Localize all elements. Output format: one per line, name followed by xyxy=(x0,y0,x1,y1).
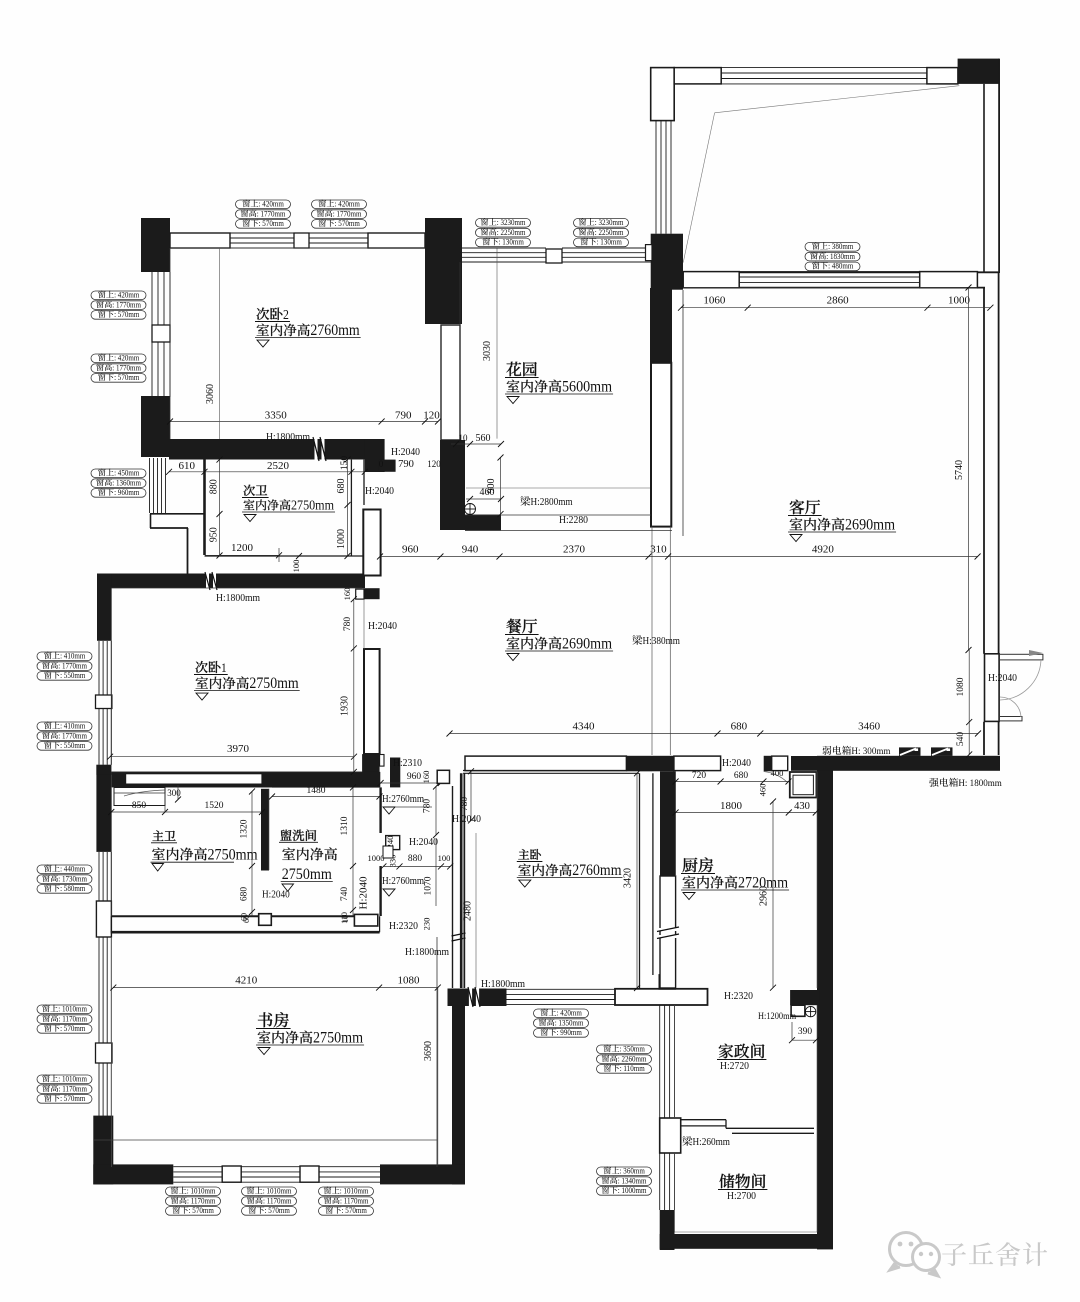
svg-text:2750mm: 2750mm xyxy=(282,865,332,883)
winboxes study bottom (three groups) xyxy=(166,1187,221,1196)
wall: masterbath south band outlined xyxy=(111,915,258,917)
svg-text:2690mm: 2690mm xyxy=(845,516,895,534)
dim 300-dim small square symbol xyxy=(383,846,393,858)
svg-text:: 2250mm: : 2250mm xyxy=(595,228,624,237)
svg-text:H: 300mm: H: 300mm xyxy=(851,746,890,757)
wall: band segment + fridge box right of kitchen door xyxy=(772,756,788,771)
svg-text:160: 160 xyxy=(421,771,431,784)
svg-text:: 1350mm: : 1350mm xyxy=(555,1018,584,1027)
dim 3690 study vertical xyxy=(437,988,439,1165)
watermark text 子丘舍计 xyxy=(942,1243,966,1266)
wall: second bath south line xyxy=(205,555,365,557)
svg-text:430: 430 xyxy=(794,801,810,812)
wall: laundry north band xyxy=(262,772,380,788)
window: garden top wall xyxy=(462,247,546,249)
room outline masterbath/laundry xyxy=(110,787,112,916)
svg-text:790: 790 xyxy=(395,410,412,422)
svg-text:1070: 1070 xyxy=(424,876,434,895)
svg-text:: 1010mm: : 1010mm xyxy=(187,1187,216,1196)
svg-text:: 410mm: : 410mm xyxy=(60,652,86,661)
wall: study left bottom block xyxy=(96,1116,112,1168)
svg-text:: 570mm: : 570mm xyxy=(335,219,361,228)
svg-text:1: 1 xyxy=(221,660,227,675)
dim 2960 kitchen vertical xyxy=(772,802,774,988)
svg-text:1060: 1060 xyxy=(703,295,726,307)
svg-text:10: 10 xyxy=(459,433,469,443)
dim second bath top 610/2520/150 xyxy=(169,471,365,473)
window: left wall 450-window below bedroom2 xyxy=(149,458,151,513)
svg-text:H:1800mm: H:1800mm xyxy=(266,431,310,443)
door: entry bottom leaf with arc xyxy=(1000,717,1023,721)
svg-text:2370: 2370 xyxy=(563,544,586,556)
dim 5740 living east xyxy=(968,288,970,651)
dim 4210/1080 study xyxy=(113,987,438,989)
svg-text:H:2320: H:2320 xyxy=(724,990,753,1002)
svg-text:: 1170mm: : 1170mm xyxy=(59,1014,88,1023)
window: living room north window band xyxy=(683,272,739,288)
svg-text:: 2250mm: : 2250mm xyxy=(497,228,526,237)
beam label storage xyxy=(682,1136,692,1146)
svg-text:3460: 3460 xyxy=(858,721,881,733)
svg-text:390: 390 xyxy=(798,1027,812,1037)
svg-text:2760mm: 2760mm xyxy=(310,322,360,339)
window: utility west wall xyxy=(659,1005,661,1118)
svg-text:: 420mm: : 420mm xyxy=(114,291,140,300)
svg-text:: 1170mm: : 1170mm xyxy=(340,1196,369,1205)
room label laundry xyxy=(280,830,291,841)
wall: bedroom1 bottom band xyxy=(111,772,380,788)
winboxes study left (two groups) xyxy=(37,1005,92,1014)
wall: storage top pillar xyxy=(660,1118,681,1153)
wall: corridor east wall xyxy=(817,770,833,1249)
svg-text:H:380mm: H:380mm xyxy=(643,636,681,647)
svg-text:: 1010mm: : 1010mm xyxy=(263,1187,292,1196)
svg-text:680: 680 xyxy=(336,479,347,494)
wall: main south band of living room xyxy=(791,756,819,771)
svg-text:H:1200mm: H:1200mm xyxy=(758,1012,797,1022)
room label master bath xyxy=(152,830,163,841)
svg-text:H:2040: H:2040 xyxy=(988,672,1017,684)
svg-text:: 360mm: : 360mm xyxy=(620,1167,646,1176)
svg-text:H: 1800mm: H: 1800mm xyxy=(958,778,1002,789)
svg-text:880: 880 xyxy=(408,854,422,864)
dim 1930 bedroom1 vertical xyxy=(353,648,355,772)
svg-text:2480: 2480 xyxy=(463,901,474,921)
wall: step lines left edge xyxy=(150,513,205,515)
svg-text:H:1800mm: H:1800mm xyxy=(481,978,525,990)
svg-text:: 990mm: : 990mm xyxy=(557,1028,583,1037)
room label utility xyxy=(719,1044,733,1059)
room outline garden interior xyxy=(459,262,461,440)
wall: laundry east wall xyxy=(379,787,381,833)
svg-text:680: 680 xyxy=(734,771,748,781)
label 弱电箱 xyxy=(823,746,832,755)
winboxes above bedroom2 (two groups) xyxy=(236,200,291,209)
svg-text:960: 960 xyxy=(402,544,419,556)
svg-text:610: 610 xyxy=(179,460,196,472)
watermark wechat logo xyxy=(890,1233,940,1277)
svg-text:: 450mm: : 450mm xyxy=(114,469,140,478)
wall: small pillar at kitchen door xyxy=(764,756,772,772)
masterbath sink counter xyxy=(114,788,165,806)
dim 900 vertical garden xyxy=(500,458,502,515)
beam lines dining/living xyxy=(651,527,653,755)
wall: bedroom1 top band xyxy=(97,574,365,589)
svg-text:110: 110 xyxy=(340,912,349,924)
room outline study xyxy=(110,937,112,1167)
svg-text:1520: 1520 xyxy=(205,801,224,811)
wall: study south band xyxy=(93,1116,113,1185)
winboxes garden top (two groups) xyxy=(476,219,531,228)
svg-text:2760mm: 2760mm xyxy=(572,862,622,879)
beam label 2800 garden xyxy=(520,496,530,506)
svg-text:H:260mm: H:260mm xyxy=(693,1137,731,1148)
svg-text:3420: 3420 xyxy=(623,868,634,888)
svg-text:: 3230mm: : 3230mm xyxy=(497,218,526,227)
room outline kitchen xyxy=(675,771,677,876)
room label dining xyxy=(506,619,521,634)
svg-text:540: 540 xyxy=(956,732,966,746)
room label study xyxy=(258,1012,273,1027)
svg-text:1080: 1080 xyxy=(956,677,966,696)
svg-text:H:2760mm: H:2760mm xyxy=(382,876,424,887)
wall: bedroom2 bottom band xyxy=(169,439,382,460)
break mark on bedroom2 bottom band xyxy=(316,436,323,462)
wall: bedroom2/garden top-right block xyxy=(425,218,462,324)
dim 4340/680/3460 dining south xyxy=(450,733,979,735)
svg-text:950: 950 xyxy=(209,527,220,542)
winbox living north 380 xyxy=(805,243,860,252)
svg-text:: 380mm: : 380mm xyxy=(828,242,854,251)
svg-text:460: 460 xyxy=(758,784,768,797)
svg-text:H:2040: H:2040 xyxy=(365,485,394,497)
svg-text:H:2040: H:2040 xyxy=(409,836,438,848)
svg-text:: 480mm: : 480mm xyxy=(828,262,854,271)
svg-text:960: 960 xyxy=(407,772,421,782)
dim 3420 kitchen vertical xyxy=(636,773,638,988)
svg-text:: 420mm: : 420mm xyxy=(557,1009,583,1018)
wall: bedroom1 left lower column top xyxy=(96,765,111,775)
wall: terrace west pillar xyxy=(651,68,675,121)
wall: masterbath/laundry divider xyxy=(261,789,269,871)
svg-text:5740: 5740 xyxy=(954,460,965,480)
room label bedroom2 xyxy=(257,308,270,321)
svg-text:790: 790 xyxy=(398,459,414,470)
svg-text:H:2720: H:2720 xyxy=(720,1060,749,1072)
wall: living room below door xyxy=(983,722,985,755)
dim 3030 garden vertical xyxy=(496,249,498,439)
winbox left 450 group xyxy=(91,469,146,478)
wall: second-bath west wall xyxy=(203,457,206,555)
svg-text:3970: 3970 xyxy=(227,743,250,755)
label 强电箱 xyxy=(929,778,938,787)
svg-text:120: 120 xyxy=(427,459,441,469)
svg-text:: 110mm: : 110mm xyxy=(620,1064,646,1073)
wall: storage north wall lines xyxy=(681,1119,726,1121)
svg-text:150: 150 xyxy=(340,456,350,470)
svg-text:: 550mm: : 550mm xyxy=(60,741,86,750)
svg-text:3350: 3350 xyxy=(265,410,288,422)
svg-text:720: 720 xyxy=(692,771,706,781)
electric device notch in utility room xyxy=(791,1005,805,1016)
appliance box right of kitchen door xyxy=(790,772,817,798)
svg-text:680: 680 xyxy=(240,887,250,901)
wall: dining south band west part xyxy=(465,756,626,771)
svg-text:: 130mm: : 130mm xyxy=(499,238,525,247)
svg-text:740: 740 xyxy=(340,887,350,901)
wall: garden west step piece xyxy=(465,515,501,531)
wall: bedroom1 east outlined column xyxy=(364,649,380,754)
room outline bedroom2 xyxy=(170,247,425,249)
svg-text:: 1770mm: : 1770mm xyxy=(257,209,286,218)
wall: master bedroom east wall outline xyxy=(639,773,641,989)
svg-text:: 1360mm: : 1360mm xyxy=(112,478,141,487)
svg-text:H:2040: H:2040 xyxy=(368,620,397,632)
svg-text:3030: 3030 xyxy=(482,341,493,361)
dim vertical 880/950 in second bath xyxy=(219,460,221,556)
svg-text:4210: 4210 xyxy=(235,975,258,987)
svg-text:560: 560 xyxy=(476,433,491,444)
svg-text:2520: 2520 xyxy=(267,460,290,472)
wall: study/master-bedroom south block xyxy=(448,989,507,1007)
room label second bath xyxy=(243,485,254,496)
svg-text:H:1800mm: H:1800mm xyxy=(216,592,260,604)
door: main entry frame xyxy=(985,654,1000,722)
svg-text:: 570mm: : 570mm xyxy=(60,1024,86,1033)
svg-text:: 580mm: : 580mm xyxy=(60,884,86,893)
svg-text:: 420mm: : 420mm xyxy=(259,200,285,209)
svg-text:1080: 1080 xyxy=(397,975,420,987)
wall: masterbath north shelf xyxy=(126,774,262,784)
svg-text:1320: 1320 xyxy=(240,819,250,838)
svg-text:: 130mm: : 130mm xyxy=(597,238,623,247)
svg-text:310: 310 xyxy=(650,544,667,556)
window: study left wall xyxy=(98,937,100,1043)
svg-text:2750mm: 2750mm xyxy=(249,675,299,692)
svg-text:1480: 1480 xyxy=(307,786,326,796)
svg-text:H:2040: H:2040 xyxy=(391,446,420,458)
wall: storage west bottom block xyxy=(660,1210,675,1250)
room label living xyxy=(790,500,805,515)
svg-text:: 1170mm: : 1170mm xyxy=(263,1196,292,1205)
wall: piece right of bedroom1 corner xyxy=(390,758,400,788)
svg-text:1000: 1000 xyxy=(368,853,385,863)
svg-text:780: 780 xyxy=(343,617,353,631)
window: bedroom2 top wall xyxy=(170,233,230,248)
wall: dining west column outlined xyxy=(363,510,380,576)
wall: master bedroom west wall xyxy=(460,773,463,988)
wall: bedroom1 east chunk with notch xyxy=(362,588,380,599)
wall: T-pillar south of kitchen xyxy=(615,989,708,1005)
wall: bedroom2 top-left corner block xyxy=(141,218,170,272)
svg-text:3060: 3060 xyxy=(205,384,216,404)
svg-text:: 570mm: : 570mm xyxy=(259,219,285,228)
wall: study east wall outline xyxy=(452,786,454,988)
dim 3060 bedroom2 vertical xyxy=(219,248,221,439)
wall: master bedroom north wall line xyxy=(463,770,652,772)
svg-text:2750mm: 2750mm xyxy=(291,499,334,514)
dim 3970 bedroom1 xyxy=(110,756,354,758)
room label master bedroom xyxy=(518,849,529,859)
svg-text:940: 940 xyxy=(462,544,479,556)
window: bedroom2 left wall upper xyxy=(151,272,153,325)
svg-text:: 410mm: : 410mm xyxy=(60,722,86,731)
wall: study east column lower xyxy=(452,1006,465,1184)
svg-text:: 1170mm: : 1170mm xyxy=(59,1084,88,1093)
room outline master bedroom xyxy=(463,773,465,988)
wall: garden east wall xyxy=(650,288,672,363)
svg-text:: 2260mm: : 2260mm xyxy=(618,1054,647,1063)
svg-text:H:2700: H:2700 xyxy=(727,1190,756,1202)
window: second bath east wall outline xyxy=(350,460,352,556)
dim masterbath verticals 1320/680/60 xyxy=(251,792,253,917)
pillar NW of master bedroom xyxy=(437,770,449,783)
door: entry top leaf with arc xyxy=(1000,654,1043,660)
svg-text:: 350mm: : 350mm xyxy=(620,1045,646,1054)
svg-text:: 570mm: : 570mm xyxy=(114,310,140,319)
wall: living room east wall outline xyxy=(983,288,985,654)
svg-text:: 1010mm: : 1010mm xyxy=(58,1075,87,1084)
svg-text:: 420mm: : 420mm xyxy=(335,200,361,209)
svg-text:100: 100 xyxy=(438,853,451,863)
window: terrace west wall xyxy=(655,120,657,234)
svg-text:: 550mm: : 550mm xyxy=(60,671,86,680)
svg-text:: 440mm: : 440mm xyxy=(60,865,86,874)
wall: left wall outline below masterbath window xyxy=(96,901,111,937)
window: storage west wall xyxy=(659,1153,661,1210)
wall: bedroom2 left wall lower block xyxy=(141,396,170,457)
svg-text:: 570mm: : 570mm xyxy=(342,1206,368,1215)
dim 1080/540 entry verticals xyxy=(968,650,970,754)
svg-text:: 1770mm: : 1770mm xyxy=(112,300,141,309)
wall: utility room NE chunk xyxy=(790,990,820,1005)
dim laundry verticals 1310/740/110 xyxy=(352,787,354,916)
svg-text:460: 460 xyxy=(480,487,495,498)
svg-text:: 3230mm: : 3230mm xyxy=(595,218,624,227)
dim 1060/2860/1000 terrace xyxy=(681,307,990,309)
svg-text:1800: 1800 xyxy=(720,800,743,812)
wall: terrace east wall outline xyxy=(983,84,985,272)
svg-text:780: 780 xyxy=(423,799,433,813)
dim H2040 rotated laundry east xyxy=(359,877,370,910)
svg-text:0: 0 xyxy=(379,459,384,469)
svg-text:4920: 4920 xyxy=(812,544,835,556)
svg-text:680: 680 xyxy=(731,721,748,733)
window: study south wall xyxy=(173,1166,380,1168)
svg-text:4340: 4340 xyxy=(573,721,596,733)
svg-text:H:2760mm: H:2760mm xyxy=(382,794,424,805)
svg-text:2750mm: 2750mm xyxy=(208,845,258,863)
wall: corner piece right of bedroom2 band xyxy=(365,439,385,472)
svg-text:: 570mm: : 570mm xyxy=(60,1094,86,1103)
svg-text:H:2040: H:2040 xyxy=(359,877,370,910)
wall: terrace top-right corner block xyxy=(958,59,1000,84)
window: masterbath left wall xyxy=(98,852,100,901)
winboxes left of bedroom2 (two groups) xyxy=(91,291,146,300)
wall: garden west column xyxy=(441,325,460,440)
wall: bedroom1 left wall xyxy=(97,574,111,641)
dim vertical 680/1000 right side of second bath xyxy=(347,460,349,556)
svg-text:: 1770mm: : 1770mm xyxy=(58,661,87,670)
svg-text:120: 120 xyxy=(423,410,440,422)
svg-text:5600mm: 5600mm xyxy=(562,378,612,396)
room outline utility/storage xyxy=(674,1005,676,1118)
svg-text:880: 880 xyxy=(209,479,220,494)
svg-text:2690mm: 2690mm xyxy=(562,635,612,653)
svg-text:: 1730mm: : 1730mm xyxy=(58,874,87,883)
wall: bedroom1 left lower block xyxy=(96,765,111,852)
winboxes bedroom1 left (two groups) xyxy=(37,652,92,661)
room outline living xyxy=(682,290,684,536)
window: bedroom1 left wall xyxy=(98,641,100,695)
svg-text:: 570mm: : 570mm xyxy=(189,1206,215,1215)
room outline bedroom1 xyxy=(110,588,112,765)
svg-text:: 1000mm: : 1000mm xyxy=(618,1186,647,1195)
svg-text:H:2040: H:2040 xyxy=(722,757,751,769)
svg-text:H:2040: H:2040 xyxy=(262,890,290,901)
svg-text:: 570mm: : 570mm xyxy=(114,373,140,382)
svg-text:: 1170mm: : 1170mm xyxy=(187,1196,216,1205)
svg-text:3690: 3690 xyxy=(423,1041,434,1061)
svg-text:: 1010mm: : 1010mm xyxy=(340,1187,369,1196)
winbox storage west xyxy=(597,1167,652,1176)
svg-text:1000: 1000 xyxy=(948,295,971,307)
svg-text:: 1770mm: : 1770mm xyxy=(333,209,362,218)
svg-text:: 1770mm: : 1770mm xyxy=(58,731,87,740)
svg-text:: 1830mm: : 1830mm xyxy=(826,252,855,261)
svg-text:H:2280: H:2280 xyxy=(559,514,588,526)
wall: storage south band xyxy=(660,1234,827,1249)
svg-text:2: 2 xyxy=(283,307,289,322)
junction boxes with slashes xyxy=(899,747,921,756)
svg-text:300: 300 xyxy=(167,788,181,798)
room label garden xyxy=(506,362,521,377)
room label storage xyxy=(719,1174,734,1189)
svg-text:2860: 2860 xyxy=(827,295,850,307)
svg-text:H:2310: H:2310 xyxy=(393,757,422,769)
svg-text:850: 850 xyxy=(132,801,146,811)
window: terrace top wall xyxy=(674,68,721,84)
room label bedroom1 xyxy=(196,661,208,673)
winbox utility west xyxy=(597,1045,652,1054)
svg-text:: 570mm: : 570mm xyxy=(265,1206,291,1215)
dim row 960/940/2370/310/4920 xyxy=(380,556,978,558)
dim bedroom2 bottom 3350/790/120 xyxy=(170,421,438,423)
svg-text:1930: 1930 xyxy=(340,696,351,716)
svg-text:1200: 1200 xyxy=(231,542,254,554)
wall: living room north boundary edges xyxy=(683,271,999,273)
winbox master bedroom south xyxy=(534,1009,589,1018)
diagonal sight lines on terrace xyxy=(715,86,960,113)
wall: kitchen west wall xyxy=(660,771,676,876)
svg-text:780: 780 xyxy=(460,797,470,811)
wall: garden northeast junction block xyxy=(651,234,683,290)
svg-text:230: 230 xyxy=(422,918,432,931)
wall: bedroom1 SE black block v2 xyxy=(362,754,380,787)
svg-text:: 420mm: : 420mm xyxy=(114,354,140,363)
winbox masterbath left 440 xyxy=(37,865,92,874)
svg-text:: 1010mm: : 1010mm xyxy=(58,1005,87,1014)
svg-text:160: 160 xyxy=(342,588,352,601)
svg-text:1310: 1310 xyxy=(340,816,350,835)
svg-text:H:1800mm: H:1800mm xyxy=(405,946,449,958)
svg-text:2720mm: 2720mm xyxy=(738,874,788,892)
svg-text:2750mm: 2750mm xyxy=(313,1029,363,1047)
svg-text:H:2800mm: H:2800mm xyxy=(531,497,573,508)
svg-text:100: 100 xyxy=(291,560,301,573)
room label kitchen xyxy=(682,858,697,873)
beam label 380 dining xyxy=(632,635,642,645)
